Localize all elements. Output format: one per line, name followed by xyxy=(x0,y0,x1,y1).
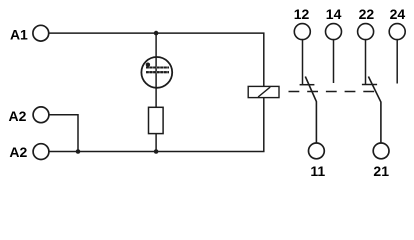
svg-text:11: 11 xyxy=(310,163,325,179)
svg-text:22: 22 xyxy=(359,6,375,22)
svg-text:A2: A2 xyxy=(9,144,27,160)
svg-text:21: 21 xyxy=(373,163,389,179)
svg-text:A2: A2 xyxy=(9,108,27,124)
svg-text:14: 14 xyxy=(326,6,342,22)
svg-text:A1: A1 xyxy=(10,27,28,43)
svg-text:12: 12 xyxy=(294,6,310,22)
svg-text:24: 24 xyxy=(390,6,406,22)
